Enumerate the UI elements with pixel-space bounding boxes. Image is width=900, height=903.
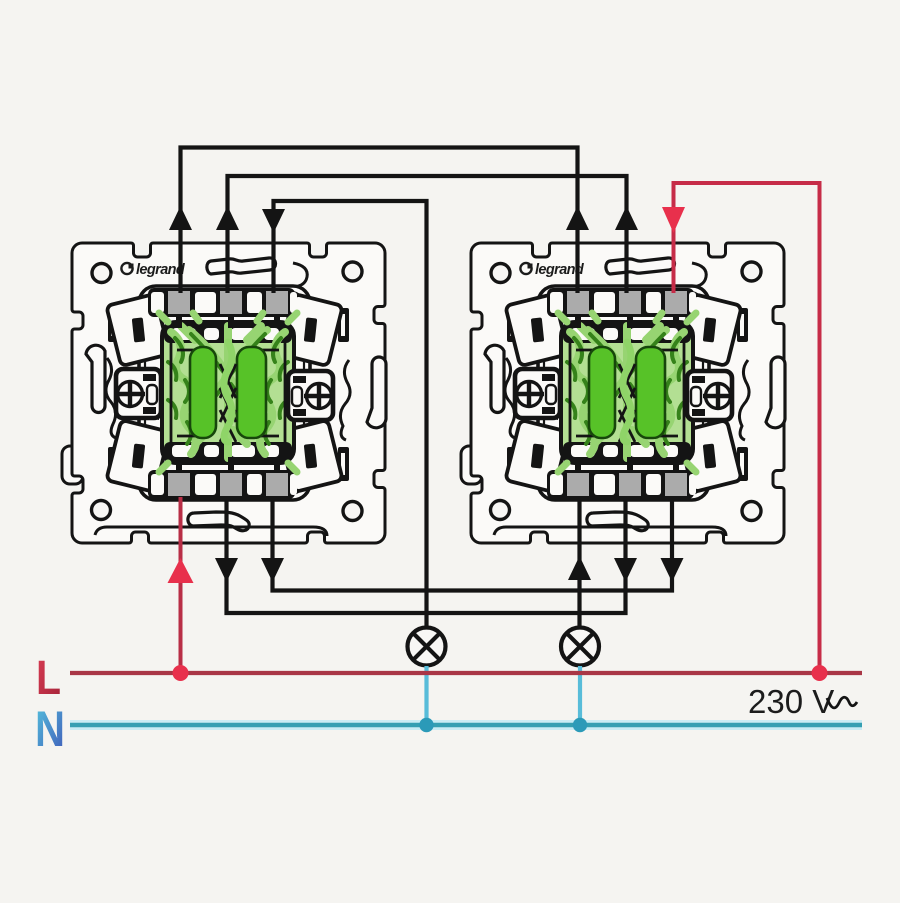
N junction dot lamp E1 (419, 718, 433, 732)
wire E: SW1 bottom terminal 3 to SW2 bottom terminal 3 (273, 497, 673, 591)
arrow down SW1 top t3 (262, 209, 285, 233)
svg-text:230 V: 230 V (748, 683, 834, 720)
AC sine symbol (827, 697, 857, 708)
N bus wire (70, 723, 862, 728)
wire C: SW1 top terminal 3 to lamp E1 (274, 201, 427, 629)
red feed wire right: L bus to SW2 top terminal 3 (674, 183, 820, 671)
red arrow up SW1 bottom t1 (168, 558, 194, 583)
red feed wire left: L bus to SW1 bottom terminal 1 (179, 497, 183, 671)
N junction dot lamp E2 (573, 718, 587, 732)
arrow up SW1 top t2 (216, 206, 239, 230)
wire D: SW1 bottom terminal 2 to SW2 bottom terminal 2 (227, 497, 626, 613)
arrow up SW2 bottom t1 (568, 556, 591, 580)
lamp E2 (561, 628, 599, 666)
arrow up SW2 top t2 (615, 206, 638, 230)
wire A: SW1 top terminal 1 to SW2 top terminal 1 (181, 148, 578, 294)
N bus halo (70, 720, 862, 730)
L junction dot right (812, 665, 828, 681)
L bus wire (70, 671, 862, 675)
L junction dot left (173, 665, 189, 681)
svg-text:N: N (35, 701, 65, 757)
arrow down SW2 bottom t2 (614, 558, 637, 582)
wire B: SW1 top terminal 2 to SW2 top terminal 2 (228, 176, 627, 293)
arrow up SW2 top t1 (566, 206, 589, 230)
arrow down SW2 bottom t3 (661, 558, 684, 582)
arrow up SW1 top t1 (169, 206, 192, 230)
arrow down SW1 bottom t3 (261, 558, 284, 582)
switch SW2 (461, 243, 785, 543)
lamp E2 neutral stub (578, 666, 582, 723)
lamp E1 (408, 628, 446, 666)
red arrow down SW2 top t3 (662, 207, 685, 233)
lamp E1 neutral stub (424, 666, 428, 723)
switch SW1 (62, 243, 386, 543)
wire F: SW2 bottom terminal 1 to lamp E2 (577, 497, 581, 629)
arrow down SW1 bottom t2 (215, 558, 238, 582)
svg-text:L: L (36, 652, 61, 705)
